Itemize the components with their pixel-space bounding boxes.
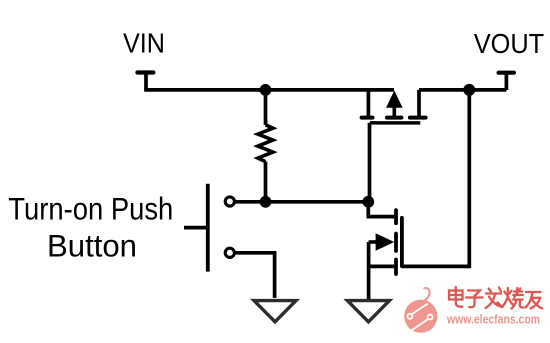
transistor Q1 PMOS drain rise [417, 90, 421, 118]
switch S1 top contact circle [225, 197, 234, 206]
transistor Q1 PMOS drain contact bar [410, 116, 426, 120]
wire PMOS gate drop to node [368, 123, 372, 202]
transistor Q1 PMOS source drop [367, 88, 371, 118]
wire top rail left (VIN to PMOS source) [144, 88, 394, 92]
node junction dot resistor bottom on gate rail [260, 196, 272, 208]
wire resistor top lead [264, 90, 268, 125]
node junction dot PMOS gate node [362, 196, 374, 208]
switch S1 push button actuator bar [206, 184, 210, 272]
transistor Q1 PMOS source contact bar [362, 116, 373, 120]
transistor Q2 NMOS gate bar [400, 218, 404, 266]
svg-text:www.elecfans.com: www.elecfans.com [446, 312, 540, 326]
wire resistor bottom lead [264, 162, 268, 202]
transistor Q1 PMOS gate line [370, 121, 421, 125]
transistor Q2 NMOS channel bottom segment [394, 260, 398, 275]
logo trace lines [412, 304, 428, 315]
logo trace pads [407, 314, 412, 319]
node VIN terminal stub [137, 73, 153, 90]
svg-text:VIN: VIN [123, 27, 165, 58]
svg-text:Turn-on Push: Turn-on Push [8, 190, 173, 226]
transistor Q2 NMOS body arrow right [376, 233, 395, 251]
wire NMOS source stub [369, 265, 395, 269]
wire top rail right (PMOS drain to VOUT) [419, 88, 506, 92]
transistor Q1 PMOS body arrow up [386, 91, 403, 108]
wire middle rail (button contact to PMOS-gate node) [235, 200, 370, 204]
transistor Q1 PMOS body contact bar [387, 116, 401, 120]
wire button bottom contact to ground [235, 253, 275, 298]
switch S1 bottom contact circle [225, 248, 234, 257]
node junction dot at resistor top [260, 84, 272, 96]
label Turn-on Push Button [8, 190, 173, 263]
wire VOUT junction down to NMOS gate [402, 88, 469, 266]
logo stem curl [424, 288, 430, 301]
ground symbol 1 (button) [254, 301, 296, 322]
logo disc [404, 300, 437, 333]
svg-text:VOUT: VOUT [474, 28, 545, 59]
watermark text 电子发烧友 (drawn strokes) [449, 287, 542, 309]
transistor Q2 NMOS channel middle segment [394, 234, 398, 251]
wire NMOS source vertical to ground [367, 242, 371, 299]
svg-text:Button: Button [47, 227, 137, 263]
ground symbol 2 (NMOS source) [347, 301, 389, 322]
switch S1 push button actuator rod [184, 226, 206, 230]
wire NMOS drain stub from node [368, 202, 394, 217]
resistor R1 zigzag [258, 125, 273, 162]
transistor Q2 NMOS channel top segment [394, 210, 398, 223]
node junction dot VOUT [463, 84, 475, 96]
node VOUT terminal stub [499, 73, 514, 90]
watermark elecfans logo [404, 288, 437, 333]
